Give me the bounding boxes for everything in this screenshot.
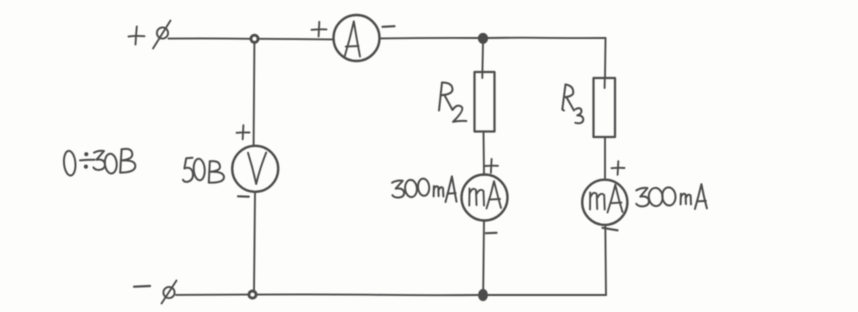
label + (mA1 polarity) [485,159,498,173]
label + (mA2 polarity) [612,161,625,175]
wire R3 to mA2 [604,137,606,178]
wire node A down to voltmeter [253,43,256,147]
wire mA1 to node E [482,221,485,292]
wire voltmeter to node D [254,193,255,291]
ammeter A1 [334,15,380,61]
label R2 [439,83,466,122]
milliammeter PA2 [582,180,627,225]
label - (mA1 polarity) [486,232,497,235]
resistor R2 [475,72,495,132]
terminal T1 (top input) [153,21,171,49]
wire node B down to R2 [481,43,484,79]
wire mA2 to bottom-right corner [604,225,607,295]
label 0÷30B (source voltage range) [63,149,135,176]
label 300mA (left meter range) [392,176,457,202]
label + (ammeter polarity) [312,22,327,37]
node A (junction, top of voltmeter branch) [251,35,258,42]
wire node E to node D [257,293,480,296]
wire R2 to mA1 [483,132,486,176]
wire top-right corner down to R3 [604,38,607,78]
node E (junction, bottom of R2 branch) [479,290,487,300]
wire bottom-right corner to node E [487,294,606,296]
node D (junction, bottom of voltmeter branch) [249,291,256,298]
milliammeter PA1 [462,175,508,221]
label 300mA (right meter range) [636,184,707,209]
node B (junction, top of R2 branch) [479,34,487,43]
label - (bottom input polarity) [134,285,150,288]
voltmeter PV1 [232,146,278,192]
lead inside R3 [604,78,606,88]
label + (top input polarity) [129,27,145,45]
wire node A to ammeter [259,38,334,41]
label + (voltmeter polarity) [237,125,250,139]
wire node D to terminal T2 [176,294,249,296]
wire ammeter to node B [380,37,479,39]
label R3 [562,85,583,124]
label - (mA2 polarity) [603,228,618,231]
label - (voltmeter polarity) [238,195,249,198]
label - (ammeter polarity) [383,25,395,28]
resistor R3 [594,78,616,137]
wire T1 to node A [169,37,251,39]
label 50B (voltmeter range) [183,158,224,183]
terminal T2 (bottom input) [162,281,177,304]
wire node B to top-right corner [487,37,606,39]
